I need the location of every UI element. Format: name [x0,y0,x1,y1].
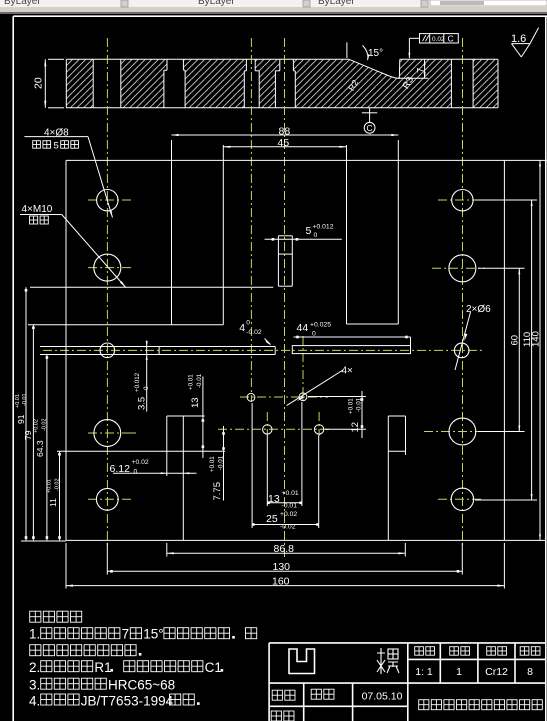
svg-text:-0.01: -0.01 [196,373,203,388]
svg-text:-0.01: -0.01 [217,455,224,470]
svg-text:5: 5 [54,140,59,151]
svg-text:8: 8 [527,666,533,678]
svg-text:-0.02: -0.02 [280,524,296,531]
svg-text:20: 20 [33,77,45,89]
svg-text:JB/T7653-1994: JB/T7653-1994 [81,694,174,709]
svg-text:-0.01: -0.01 [282,503,298,510]
svg-text:+0.01: +0.01 [209,456,216,472]
svg-text:+0.025: +0.025 [310,321,331,328]
svg-text:25: 25 [266,513,278,525]
svg-text:7.75: 7.75 [212,482,223,501]
svg-text:1: 1: 1: 1 [415,666,433,678]
svg-text:+0.01: +0.01 [188,374,195,390]
svg-text:+0.012: +0.012 [313,224,334,231]
svg-text:88: 88 [279,126,291,138]
svg-text:+0.01: +0.01 [282,490,299,497]
svg-text:0: 0 [134,468,138,475]
svg-text:1.: 1. [29,627,40,642]
svg-text:15°: 15° [143,627,163,642]
svg-text:12: 12 [350,422,361,433]
svg-text:91: 91 [16,414,26,424]
svg-text:ByLayer: ByLayer [318,0,355,7]
svg-text:160: 160 [272,576,290,588]
svg-text:86.8: 86.8 [274,543,295,555]
svg-text:+0.012: +0.012 [134,372,141,392]
svg-text:-0.02: -0.02 [54,478,60,491]
svg-text:4: 4 [239,322,245,334]
svg-text:13: 13 [190,397,201,408]
svg-text:7: 7 [416,68,427,73]
svg-text:+0.02: +0.02 [280,511,297,518]
svg-text:4×M10: 4×M10 [22,204,53,215]
svg-text:+0.01: +0.01 [347,398,354,414]
svg-text:0.02: 0.02 [432,36,445,43]
svg-text:3.5: 3.5 [136,397,147,410]
svg-text:7: 7 [122,627,130,642]
svg-text:ByLayer: ByLayer [4,0,41,7]
svg-text:0: 0 [312,331,316,338]
svg-text:140: 140 [531,331,542,347]
svg-text:C: C [448,34,454,44]
svg-text:HRC65~68: HRC65~68 [108,678,175,693]
svg-text:-0.01: -0.01 [22,393,28,406]
svg-text:11: 11 [48,498,58,507]
svg-text:07.05.10: 07.05.10 [362,691,403,703]
svg-text:-0.02: -0.02 [246,329,262,336]
svg-text:C1: C1 [205,660,222,675]
svg-text:+0.01: +0.01 [15,394,21,408]
svg-text:Cr12: Cr12 [485,666,508,678]
svg-text:2.: 2. [29,660,40,675]
svg-text:C: C [367,123,373,133]
svg-text:44: 44 [297,322,309,334]
svg-text:1: 1 [456,666,462,678]
svg-text:130: 130 [273,561,291,573]
svg-text:60: 60 [510,335,521,346]
svg-text:5: 5 [306,225,312,237]
svg-text:ByLayer: ByLayer [198,0,235,7]
svg-text:3.: 3. [29,678,40,693]
svg-text:45: 45 [278,137,290,149]
svg-text:15°: 15° [368,48,383,59]
svg-text:13: 13 [268,493,280,505]
svg-text:-0.02: -0.02 [41,418,47,431]
svg-text:0: 0 [246,320,250,327]
svg-text:0: 0 [143,386,150,390]
svg-text:4×: 4× [342,366,354,377]
svg-text:4.: 4. [29,694,40,709]
svg-text:R1: R1 [94,660,111,675]
svg-text:+0.02: +0.02 [132,459,149,466]
svg-text:+0.02: +0.02 [33,419,39,433]
svg-text:-0.01: -0.01 [356,397,363,412]
svg-text:0: 0 [314,232,318,239]
svg-text:+0.01: +0.01 [46,479,52,493]
svg-text:79: 79 [23,430,33,440]
svg-text:64.3: 64.3 [35,440,45,457]
